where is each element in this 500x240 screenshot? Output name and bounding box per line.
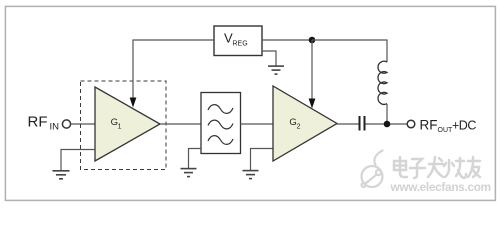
- watermark: [362, 151, 481, 188]
- node junction output: [384, 121, 391, 128]
- wire VREG right to junction: [262, 39, 312, 41]
- filter F1: [201, 93, 241, 154]
- wire filter left ground: [189, 149, 202, 169]
- arrow into G2: [309, 99, 316, 109]
- char 电: [394, 157, 407, 177]
- svg-text:OUT: OUT: [438, 127, 454, 134]
- ground (filter left): [181, 169, 197, 177]
- wire junction to inductor: [312, 40, 387, 62]
- regulator VREG: [214, 26, 262, 56]
- label RF_IN: [28, 114, 60, 133]
- char 烧: [444, 158, 466, 178]
- input terminal: [62, 120, 70, 128]
- amplifier G1: [95, 87, 160, 161]
- wire capacitor to output terminal: [366, 123, 408, 125]
- wire VREG ground stub: [262, 51, 276, 66]
- capacitor C1: [360, 116, 365, 131]
- wire G2 output to capacitor: [337, 123, 359, 125]
- svg-text:RF: RF: [28, 114, 48, 131]
- svg-text:1: 1: [118, 124, 122, 131]
- label RF_OUT+DC: [420, 118, 477, 135]
- char 子: [410, 159, 425, 178]
- svg-text:IN: IN: [50, 122, 60, 133]
- svg-text:REG: REG: [233, 41, 248, 48]
- inductor L1: [378, 61, 387, 104]
- wire junction down to G2 control: [311, 40, 313, 100]
- char 友: [468, 157, 480, 177]
- wire G2 lower input to ground: [251, 149, 274, 171]
- svg-text:+DC: +DC: [452, 119, 476, 133]
- dashed enclosure around G1: [81, 81, 167, 170]
- svg-text:www.elecfans.com: www.elecfans.com: [390, 180, 491, 194]
- wire G1 output to filter: [160, 123, 201, 125]
- ground (G2 input): [243, 171, 259, 179]
- output terminal: [407, 120, 415, 128]
- wire input to G1: [71, 123, 96, 125]
- ground (VREG): [268, 66, 284, 74]
- svg-text:2: 2: [297, 124, 301, 131]
- wire inductor to output node: [386, 104, 388, 124]
- svg-text:RF: RF: [420, 118, 438, 133]
- char 发: [428, 157, 443, 177]
- arrow into G1: [130, 98, 137, 108]
- node junction top: [309, 37, 316, 44]
- wire G1 lower input to ground: [61, 150, 95, 171]
- wire VREG left to G1 control: [133, 40, 214, 99]
- wire filter to G2: [241, 123, 274, 125]
- ground (G1 input): [53, 171, 70, 179]
- amplifier G2: [273, 86, 337, 161]
